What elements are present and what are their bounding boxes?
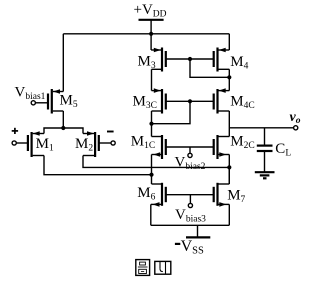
wire M1C-M2C gate tie — [166, 146, 214, 148]
wire M3-M4 gate tie — [166, 58, 214, 60]
transistor M1 (PMOS input +) — [16, 131, 44, 157]
label plus — [12, 128, 18, 134]
terminal input + — [12, 141, 16, 145]
transistor M4C (PMOS cascode) — [214, 88, 230, 136]
transistor M2C (NMOS cascode) — [214, 135, 230, 159]
svg-text:M2C: M2C — [230, 134, 254, 152]
terminal Vbias2 — [188, 147, 192, 157]
transistor M7 (NMOS current source) — [214, 167, 230, 206]
wire cascode gate to M3C drain — [152, 101, 191, 123]
svg-text:VSS: VSS — [181, 238, 204, 257]
terminal input - — [111, 141, 115, 145]
wire M5 drain to tail node — [62, 111, 64, 128]
wire M2C source to fold node B — [228, 155, 230, 185]
label -VSS — [175, 238, 204, 257]
ground — [255, 172, 275, 178]
wire gate node to M4 drain — [190, 59, 229, 77]
terminal Vbias3 — [188, 195, 192, 208]
transistor M3 (PMOS mirror) — [151, 34, 166, 91]
wire VSS rail — [151, 224, 230, 226]
svg-text:M2: M2 — [75, 136, 93, 154]
node tail junction — [61, 126, 65, 130]
wire M1C source to fold node A — [151, 155, 153, 185]
svg-text:M3C: M3C — [133, 94, 157, 112]
svg-text:M5: M5 — [60, 93, 78, 111]
wire tail rail — [44, 128, 83, 134]
wire M3C-M4C gate tie — [166, 100, 214, 102]
svg-text:M4: M4 — [230, 54, 248, 72]
wire output node to vo terminal — [229, 127, 293, 129]
capacitor CL — [257, 128, 273, 172]
transistor M4 (PMOS mirror) — [214, 34, 230, 91]
svg-text:vo: vo — [290, 110, 301, 126]
node VDD-stub junction — [149, 32, 153, 36]
node fold A junction — [149, 173, 153, 177]
node fold B junction — [227, 165, 231, 169]
node mirror gate junction — [188, 57, 192, 61]
node M3C drain junction — [149, 122, 153, 126]
svg-text:M1: M1 — [36, 136, 54, 154]
wire M2 drain to fold node B — [83, 156, 229, 168]
transistor M6 (NMOS current source) — [151, 183, 166, 207]
node M4 drain junction — [227, 75, 231, 79]
svg-text:Vbias3: Vbias3 — [175, 207, 206, 225]
power -VSS terminal — [186, 225, 210, 237]
wire M1 drain to fold node A — [44, 156, 152, 175]
terminal Vbias1 — [31, 101, 35, 105]
svg-text:M7: M7 — [227, 188, 245, 206]
wire VDD rail — [63, 33, 229, 35]
transistor M1C (NMOS cascode) — [152, 135, 166, 159]
caption 圖四 (Figure 4) — [136, 260, 171, 276]
svg-text:CL: CL — [275, 141, 291, 159]
wire M6-M7 gate tie — [166, 194, 214, 196]
wire M7 source to VSS rail — [228, 204, 230, 225]
svg-text:Vbias1: Vbias1 — [15, 85, 46, 103]
svg-text:M6: M6 — [137, 185, 155, 203]
power +VDD terminal — [139, 20, 164, 34]
wire VDD rail to M5 source — [62, 34, 64, 92]
transistor M2 (PMOS input -) — [83, 131, 111, 157]
svg-text:M4C: M4C — [230, 94, 254, 112]
svg-text:+VDD: +VDD — [134, 2, 167, 20]
wire M6 source to VSS rail — [150, 204, 152, 225]
transistor M5 (PMOS tail) — [35, 89, 63, 114]
svg-text:M3: M3 — [138, 54, 156, 72]
node cascode gate junction — [188, 99, 192, 103]
label minus — [107, 131, 114, 133]
transistor M3C (PMOS cascode) — [152, 88, 166, 136]
terminal vo — [294, 126, 298, 130]
